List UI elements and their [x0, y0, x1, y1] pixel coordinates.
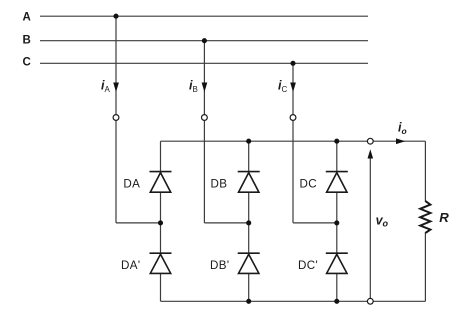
terminal circle B — [202, 115, 208, 121]
wire dropline A — [115, 16, 117, 223]
wire diode leg A — [160, 141, 162, 301]
svg-text:C: C — [282, 85, 288, 94]
node dot top bus DB — [246, 139, 251, 144]
svg-text:R: R — [439, 210, 449, 225]
node dot mid A — [158, 220, 163, 225]
node dot C line — [290, 61, 295, 66]
terminal circle output bottom — [367, 298, 373, 304]
terminal circle output top — [367, 138, 373, 144]
svg-text:DA: DA — [123, 178, 140, 191]
wire vo measurement line — [369, 152, 371, 298]
node dot bottom bus DB — [246, 299, 251, 304]
wire top bus — [161, 140, 426, 142]
arrow current iC — [290, 83, 296, 93]
svg-text:A: A — [105, 85, 111, 94]
arrow vo up — [368, 149, 374, 158]
wire mid connector A — [116, 222, 161, 224]
node dot top bus DC — [334, 139, 339, 144]
svg-text:A: A — [23, 12, 31, 24]
terminal circle A — [113, 115, 119, 121]
terminal circle C — [290, 115, 296, 121]
node dot A line — [113, 14, 118, 19]
diode DB — [238, 172, 260, 193]
wire diode leg B — [248, 141, 250, 301]
wire bottom bus — [161, 300, 426, 302]
svg-text:C: C — [23, 57, 31, 69]
wire phase line B — [40, 40, 368, 42]
diode DB' — [238, 253, 260, 273]
arrow current iB — [202, 83, 208, 93]
resistor R — [420, 201, 430, 233]
diode DC — [326, 172, 348, 193]
diode DA' — [150, 253, 172, 273]
diode DA — [150, 172, 172, 193]
svg-text:DA': DA' — [121, 259, 141, 272]
arrow current io — [396, 138, 405, 144]
svg-text:B: B — [193, 85, 198, 94]
svg-text:DC: DC — [300, 178, 318, 191]
wire mid connector C — [293, 222, 337, 224]
wire phase line A — [40, 15, 368, 17]
node dot mid B — [246, 220, 251, 225]
arrow current iA — [113, 83, 119, 93]
svg-text:DB': DB' — [210, 259, 230, 272]
svg-text:o: o — [402, 126, 407, 136]
node dot bottom bus DC — [334, 299, 339, 304]
wire mid connector B — [204, 222, 248, 224]
wire phase line C — [40, 62, 368, 64]
node dot mid C — [334, 220, 339, 225]
svg-text:DB: DB — [211, 178, 228, 191]
diode DC' — [326, 253, 348, 273]
svg-text:B: B — [23, 35, 31, 47]
svg-text:vo: vo — [376, 214, 389, 229]
wire dropline B — [203, 41, 205, 223]
wire diode leg C — [336, 141, 338, 301]
wire dropline C — [292, 63, 294, 223]
node dot B line — [202, 38, 207, 43]
svg-text:DC': DC' — [298, 259, 318, 272]
wire load branch bottom — [424, 233, 426, 302]
wire load branch top — [424, 141, 426, 201]
